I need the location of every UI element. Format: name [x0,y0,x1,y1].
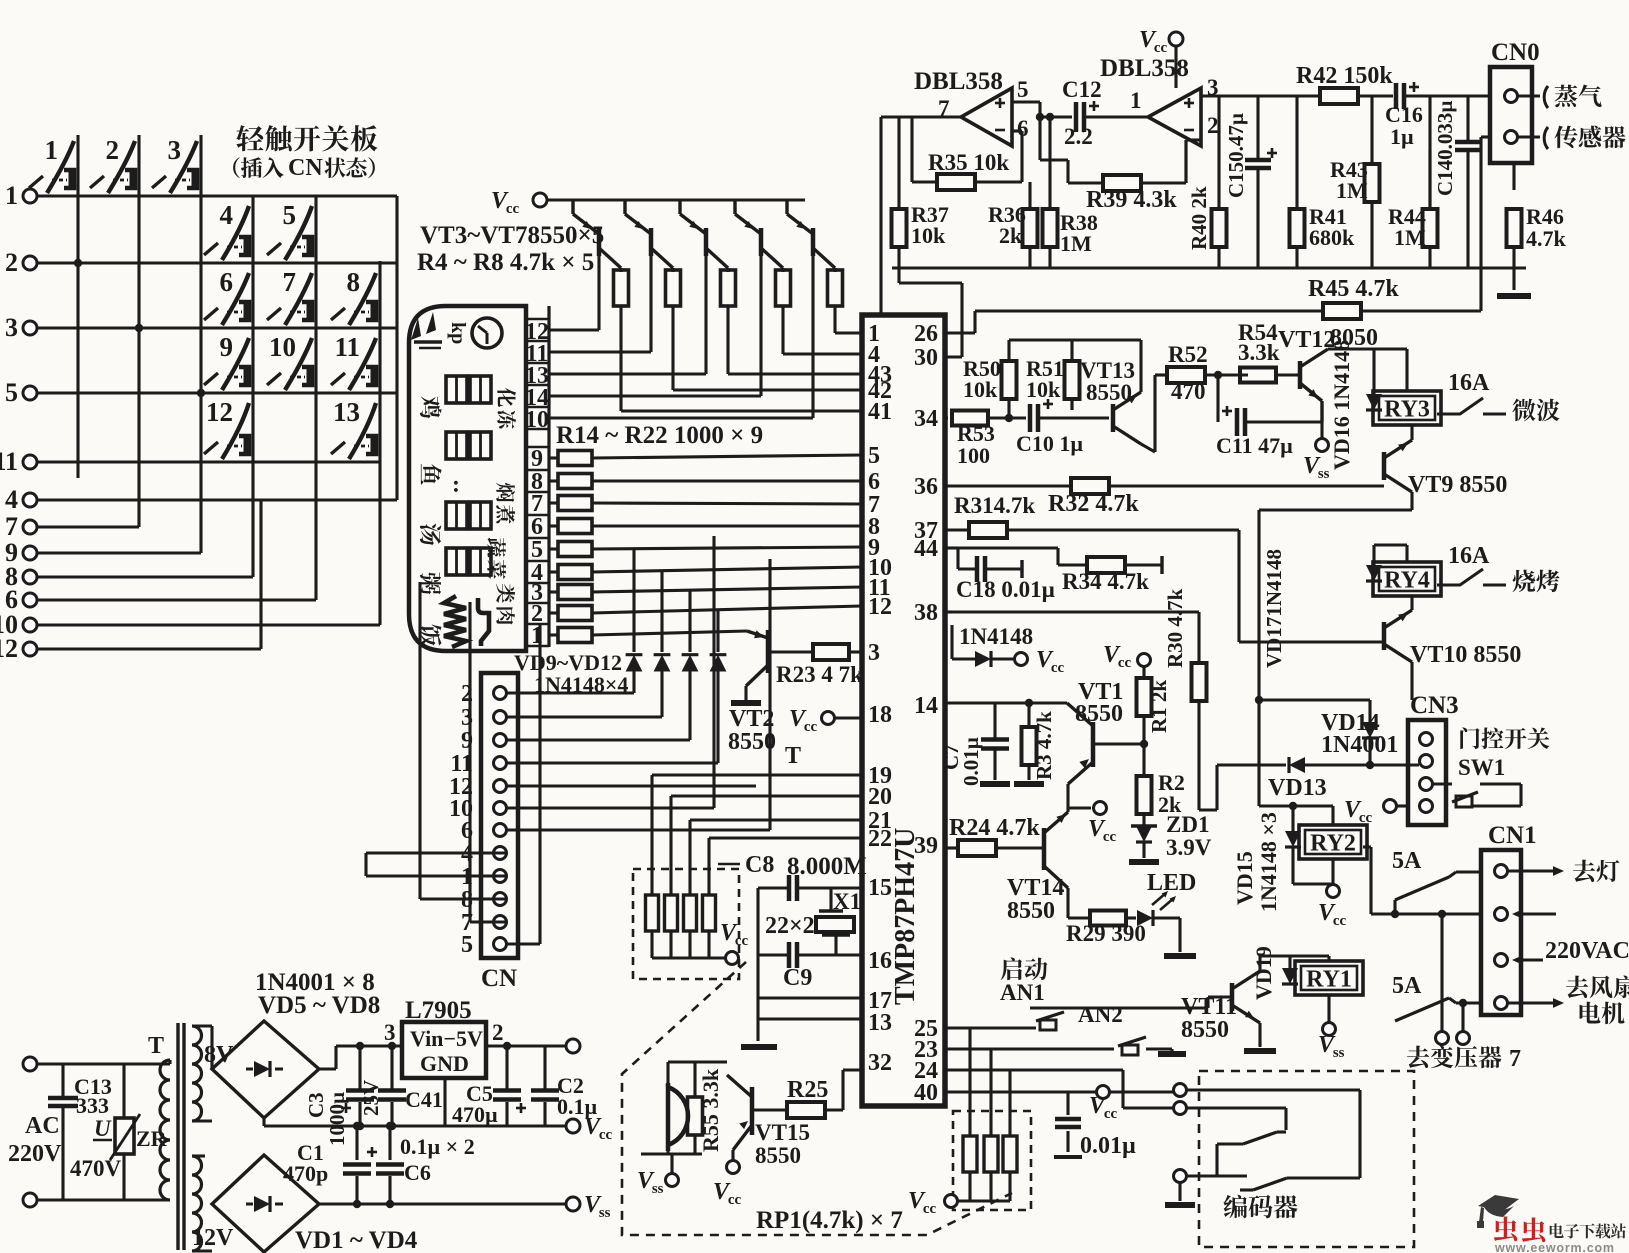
svg-text:10: 10 [269,332,296,362]
transformer 12V winding [192,1156,202,1251]
svg-text:cc: cc [735,933,749,949]
resistor R3 4.7k [1022,727,1037,765]
bridge rectifier VD1~VD4 [212,1155,319,1252]
svg-text:cc: cc [599,1127,613,1143]
watermark site name 电子下载站 [1550,1223,1564,1238]
resistor R50 10k [1002,361,1017,399]
diode VD12 [710,655,727,672]
svg-text:1M: 1M [1336,178,1368,203]
svg-text:RY4: RY4 [1384,568,1430,594]
svg-text:VD15: VD15 [1232,851,1257,905]
resistor R2 2k [1137,776,1152,814]
resistor R31 4.7k [969,522,1007,538]
dashed RP1 outline [622,962,1012,1235]
panel food labels [420,396,442,418]
svg-text:C18 0.01µ: C18 0.01µ [956,577,1055,602]
resistor R30 4.7k [1192,663,1207,701]
resistor R39 4.3k [1103,175,1141,191]
svg-text:VD5 ~ VD8: VD5 ~ VD8 [258,992,380,1019]
svg-text:cc: cc [1118,655,1132,671]
node row 12 [23,642,37,656]
resistor R41 680k [1290,209,1305,247]
watermark graduation cap icon [1478,1195,1519,1211]
svg-text:R14 ~ R22 1000 × 9: R14 ~ R22 1000 × 9 [556,422,763,449]
svg-text:3.9V: 3.9V [1166,835,1212,860]
resistor R51 10k [1065,361,1080,399]
svg-text:1N4148 ×3: 1N4148 ×3 [1256,812,1281,912]
svg-text:cc: cc [1103,829,1117,845]
verticals from pull-ups going up [650,775,653,868]
resistor R42 150k [1320,88,1358,104]
svg-text:R39 4.3k: R39 4.3k [1086,187,1177,213]
node row 1 [23,189,37,203]
svg-text:8: 8 [347,267,361,297]
cap C3 1000u 25V [358,1046,361,1089]
R30 bottom to VD13 line [1197,701,1200,810]
cap C16 1u [1394,83,1399,109]
cap C12 2.2 [1012,100,1040,103]
pins 17 13 wires [758,996,862,999]
resistor R37 10k [892,209,907,247]
resistor R14 [549,456,558,459]
svg-text:R24 4.7k: R24 4.7k [949,815,1040,841]
resistor R36 2k [1023,209,1038,247]
encoder dashed box [1199,1071,1414,1247]
svg-text:1: 1 [1130,88,1142,113]
cap C11 47u [1235,408,1240,436]
bridge rectifier VD5~VD8 [212,1021,319,1118]
node row 8 [23,570,37,584]
VT15 emitter to Vcc [731,1150,734,1160]
svg-text:0.1µ × 2: 0.1µ × 2 [400,1134,475,1159]
svg-text:13: 13 [333,397,360,427]
svg-text:RY1: RY1 [1306,967,1352,993]
wires to transformer [1371,912,1481,915]
CN pin 8 [494,893,507,906]
svg-text:R34 4.7k: R34 4.7k [1062,569,1149,594]
node row 3 [23,321,37,335]
dashed box C8 pull-up group [633,869,739,979]
svg-text:18: 18 [868,702,892,728]
svg-text:15: 15 [868,875,892,901]
svg-text:CN: CN [481,965,517,992]
svg-text:CN1: CN1 [1488,822,1537,849]
svg-text:6: 6 [220,267,234,297]
CN1 output labels [1508,869,1536,872]
encoder wires [1187,1088,1360,1091]
svg-text:4: 4 [220,200,234,230]
svg-text:3: 3 [384,1020,396,1045]
cap C41 [390,1046,393,1089]
svg-text:VT3~VT78550×5: VT3~VT78550×5 [420,222,604,249]
RP resistor [984,1136,998,1172]
resistor R54 3.3k [1240,368,1276,383]
svg-text:14: 14 [914,693,938,719]
wire pin38 row [945,610,952,613]
display panel outline [409,306,526,651]
panel heater coil icon [444,596,466,647]
svg-text:R29 390: R29 390 [1066,921,1146,946]
watermark text 虫虫 red [1494,1216,1517,1241]
VT2 ground [731,700,761,706]
svg-text:1N4148×4: 1N4148×4 [534,672,628,697]
wire VT13 emitter [1141,444,1155,452]
svg-text:VD1 ~ VD4: VD1 ~ VD4 [295,1227,418,1253]
svg-text:LED: LED [1147,870,1196,896]
Vcc terminal CN3 [1384,800,1397,813]
panel grill icon [478,598,489,646]
svg-text:ZD1: ZD1 [1166,812,1209,837]
svg-text:VT15: VT15 [755,1120,810,1145]
wire AN1 top [1030,1006,1208,1009]
svg-text:100: 100 [957,443,990,468]
panel steam icon [426,312,436,334]
key switch 13 [349,403,376,459]
CN pin 1 [494,870,507,883]
svg-text:AN1: AN1 [1000,980,1045,1005]
IC U1 TMP87PH47U body [862,315,945,1106]
VT11 emitter ground [1258,1023,1261,1047]
diode VD17 flyback RY4 [1366,565,1382,581]
encoder switches [1243,1132,1277,1144]
svg-text:VT9 8550: VT9 8550 [1408,472,1507,498]
key switch 11 [349,338,376,390]
resistor R7 4.7k [776,270,791,306]
CN pin 12 [494,780,507,793]
svg-text:C140.033µ: C140.033µ [1433,100,1457,196]
VT10 emitter [1410,662,1413,700]
wire pin44 [945,546,958,549]
keyboard title 轻触开关板(插入CN状态) [236,125,263,151]
CN pin 10 [494,802,507,815]
VT11 collector up to RY1 [1258,956,1261,971]
resistor R53 100 [952,411,988,426]
transistor VT3 8550 symbol [597,228,602,256]
VT2 base wire and R23 4 7k [768,650,814,653]
svg-text:8550: 8550 [1075,701,1123,727]
svg-text:GND: GND [420,1051,469,1076]
resistor R43 1M [1365,164,1380,202]
svg-text:R42 150k: R42 150k [1296,63,1393,89]
svg-text:VD16 1N4148: VD16 1N4148 [1329,340,1354,470]
cap C5 470u [505,1046,508,1089]
svg-text:R4 ~ R8 4.7k × 5: R4 ~ R8 4.7k × 5 [417,249,594,276]
regulator GND pin wire [443,1078,446,1126]
RY4 coil wires [1372,545,1375,556]
svg-text:41: 41 [868,399,892,425]
Vcc rail [264,1124,566,1127]
Vcc terminal for drivers [533,193,547,207]
svg-text:32: 32 [868,1050,892,1076]
RY1 bottom wires [1327,995,1330,1022]
transformer primary winding [160,1060,170,1200]
svg-text:3.3k: 3.3k [1238,340,1280,365]
svg-text:4: 4 [5,485,18,514]
diode VD11 [682,655,699,672]
svg-text:470: 470 [1171,379,1206,404]
node row 7 [23,520,37,534]
resistor R55 3.3k [688,1097,703,1135]
connector CN body [481,673,518,958]
node row 5 [23,386,37,400]
crystal left rail [756,888,759,1041]
key switch 12 [222,403,249,459]
svg-text:2: 2 [1207,113,1219,138]
svg-text:9: 9 [220,332,234,362]
ground R46 [1497,293,1531,299]
AC input terminals [23,1057,37,1071]
panel pin ladder [547,306,550,647]
resistor R1 2k [1137,678,1152,716]
svg-text:1M: 1M [1394,225,1426,250]
svg-text:R45 4.7k: R45 4.7k [1308,276,1399,302]
svg-text:U: U [94,1116,112,1141]
VT1 base wire to R1/R2 [1093,742,1144,745]
svg-text:5: 5 [868,443,880,469]
svg-text:R23 4 7k: R23 4 7k [776,662,863,687]
RP resistor [963,1136,977,1172]
svg-text:C10 1µ: C10 1µ [1016,431,1083,456]
svg-text:22×2: 22×2 [765,913,815,939]
svg-text:7: 7 [283,267,297,297]
winding to bridge wires [192,1024,212,1027]
relay RY1 [1295,961,1363,995]
resistor R16 [549,501,558,504]
svg-text:2: 2 [492,1020,504,1045]
svg-text:RY3: RY3 [1384,397,1430,423]
transistor VT6 [759,198,762,201]
resistor R18 [549,547,558,550]
regulator output wire [486,1044,566,1047]
VT14 emitter to R29 [1066,888,1069,918]
svg-text::: : [452,472,460,498]
svg-text:C11 47µ: C11 47µ [1216,433,1293,458]
junction dots [74,259,82,267]
svg-text:3: 3 [168,135,182,165]
diode VD13 [1289,757,1305,773]
svg-text:2: 2 [5,248,18,277]
svg-text:R32 4.7k: R32 4.7k [1048,491,1139,517]
Vcc terminal op-amp [1169,32,1183,46]
matrix column wires [76,135,79,478]
varistor ZR [122,1064,125,1118]
svg-text:5A: 5A [1392,848,1422,874]
wire pin34 row [945,416,948,419]
CN pin 7 [494,916,507,929]
svg-text:cc: cc [1333,913,1347,929]
dashed 3-resistor box [953,1111,1031,1210]
svg-text:12: 12 [206,397,233,427]
svg-text:10k: 10k [1026,377,1061,402]
wire pin26 30 to opamp [897,268,900,283]
0.01u cap near pin40 [1066,1092,1069,1115]
svg-text:12V: 12V [192,1225,234,1251]
CN pin 11 [494,757,507,770]
transistor VT4 [649,198,652,201]
svg-text:C150.47µ: C150.47µ [1224,113,1248,198]
svg-text:22: 22 [868,826,892,852]
svg-text:R25: R25 [787,1077,828,1103]
CN pin 5 [494,938,507,951]
Vcc terminal VT1 emitter [1066,784,1069,808]
key switch 8 [349,273,376,325]
node row 10 [23,618,37,632]
svg-text:16: 16 [868,948,892,974]
svg-text:0.01µ: 0.01µ [959,737,983,786]
wire pins 19-22 to C8 pullups [652,773,862,776]
svg-text:kp: kp [447,322,469,344]
svg-text:10k: 10k [963,377,998,402]
svg-text:333: 333 [76,1093,109,1118]
svg-text:C6: C6 [404,1160,431,1185]
diode VD10 [654,655,671,672]
transistor VT7 8550 symbol [811,228,816,256]
svg-text:R314.7k: R314.7k [954,493,1035,518]
node row 4 [23,493,37,507]
panel left pins 9..1 [526,446,549,449]
wire opamp2 out [1201,94,1322,97]
svg-text:C8: C8 [745,852,774,878]
svg-text:CN0: CN0 [1491,39,1540,66]
key switch 10 [285,338,312,390]
svg-text:7: 7 [1509,1046,1521,1072]
switch SW1 [1433,782,1452,785]
svg-text:44: 44 [914,536,938,562]
pull-up resistor 3 [684,895,697,931]
driver Vcc rail [547,198,805,201]
resistor R38 1M [1043,209,1058,247]
transformer 8V winding [192,1026,202,1121]
svg-text:C9: C9 [783,965,812,991]
transistor VT5 [704,198,707,201]
wire VD14 top from RY2 feed line [1259,698,1370,701]
svg-text:3: 3 [5,313,18,342]
transistor VT6 8550 symbol [759,228,764,256]
svg-text:40: 40 [914,1080,938,1106]
resistor R40 2k [1212,209,1227,247]
svg-text:7: 7 [5,512,18,541]
svg-text:38: 38 [914,600,938,626]
svg-text:www.eeworm.com: www.eeworm.com [1494,1241,1615,1253]
collector wires to IC pins 1 4 43 42 41 [619,306,622,411]
svg-text:12: 12 [868,594,892,620]
svg-text:26: 26 [914,321,938,347]
resistor R19 [549,570,558,573]
cap C6 [388,1126,391,1160]
svg-text:1µ: 1µ [1390,124,1414,149]
svg-text:RY2: RY2 [1310,831,1356,857]
CN pin 9 [494,734,507,747]
diode VD9 [626,655,643,672]
key switch 1 [47,141,74,193]
Vss rail [319,1202,566,1205]
svg-text:680k: 680k [1309,225,1355,250]
wire pin14 row [945,701,1067,704]
svg-text:1N4148: 1N4148 [959,624,1033,649]
wire op1 out [881,115,912,118]
transistor VT7 [811,198,814,201]
node row 2 [23,256,37,270]
transistor VT3 [597,198,600,201]
key switch 4 [222,206,249,260]
resistor R20 [549,590,558,593]
svg-text:cc: cc [506,201,520,217]
resistor R34 4.7k [1087,557,1125,573]
node row 9 [23,546,37,560]
svg-text:CN: CN [288,155,323,181]
CN mesh wires [507,691,634,694]
svg-text:R3 4.7k: R3 4.7k [1032,711,1056,780]
svg-text:220VAC: 220VAC [1545,938,1629,964]
switch AN1 [1036,1012,1064,1021]
cap C18 0.01u [975,556,980,582]
svg-text:VD13: VD13 [1268,775,1327,801]
svg-text:2.2: 2.2 [1064,124,1093,149]
svg-text:VT10 8550: VT10 8550 [1410,642,1521,668]
svg-text:470V: 470V [70,1156,122,1181]
CN pin 6 [494,824,507,837]
ground crystal [741,1044,777,1050]
VT9 emitter down to RY2 feed [1410,492,1413,510]
driver base wires to panel pins [548,328,599,331]
svg-text:Vin−5V: Vin−5V [410,1026,483,1051]
svg-text:12: 12 [0,634,18,663]
svg-text:R35 10k: R35 10k [928,150,1009,175]
svg-text:8550: 8550 [728,729,776,755]
Vss terminal buzzer [666,1174,679,1187]
resistor R5 4.7k [666,270,681,306]
CN pin 2 [494,687,507,700]
svg-text:R40 2k: R40 2k [1187,186,1211,250]
key switch 5 [285,206,312,260]
buzzer BZ [668,1083,688,1151]
svg-text:5: 5 [5,378,18,407]
relay RY3 [1373,391,1441,425]
encoder terminals [1174,1084,1187,1097]
resistor R22 [549,633,558,636]
label steam sensor [1544,86,1548,108]
Vss terminal VT12 [1316,439,1329,452]
svg-text:8550: 8550 [1007,898,1055,924]
resistor R4 4.7k [614,270,629,306]
svg-text:DBL358: DBL358 [914,68,1003,95]
CN pin 3 [494,711,507,724]
relay RY4 [1373,562,1441,596]
svg-text:16A: 16A [1448,543,1490,569]
op-amp U3B DBL358 [1148,88,1201,146]
svg-text:cc: cc [1051,660,1065,676]
svg-text:11: 11 [0,447,18,476]
svg-text:1M: 1M [1060,231,1092,256]
svg-text:AC: AC [25,1113,60,1139]
svg-text:ss: ss [652,1181,664,1197]
VT13 collector up [1139,340,1142,392]
resistor R21 [549,611,558,614]
start buttons AN1 AN2 [1001,957,1022,980]
pull-up resistor 1 [646,895,659,931]
svg-text:10: 10 [525,407,549,433]
svg-text:10k: 10k [911,223,946,248]
svg-text:8550: 8550 [755,1143,801,1168]
top rail from pin26 [1009,338,1141,341]
svg-text:11: 11 [334,332,360,362]
svg-text:T: T [148,1033,164,1059]
cap C1 470p [355,1126,358,1160]
switch AN2 body [1118,1037,1146,1046]
matrix outer right edge wire [395,196,398,500]
key switch 3 [170,141,197,193]
pull-up resistor 4 [703,895,716,931]
